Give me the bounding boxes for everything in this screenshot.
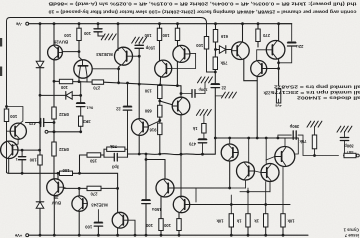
- wire br lower links: [229, 161, 231, 188]
- resistor 0R22 top: [52, 107, 56, 119]
- wire MJE253 emitter/collector drops: [78, 76, 80, 82]
- node 619/diode: [214, 48, 217, 51]
- wire diode to column: [72, 94, 81, 96]
- svg-text:100p: 100p: [198, 87, 208, 92]
- resistor 100 LTP load2: [175, 28, 179, 40]
- wire MJE253 base: [78, 52, 80, 57]
- capacitor 470u input: [198, 139, 206, 141]
- svg-text:BUV28: BUV28: [53, 39, 68, 44]
- wire inB base row: [17, 149, 40, 151]
- transistor Q driver: [266, 41, 285, 60]
- svg-text:100: 100: [29, 158, 37, 163]
- capacitor 100p: [191, 90, 193, 98]
- svg-text:3R3: 3R3: [82, 119, 90, 124]
- wire Qit emitter drop: [118, 69, 120, 83]
- node rail junction d-col: [39, 22, 42, 25]
- svg-text:-Ve: -Ve: [15, 21, 22, 26]
- capacitor 100 rail decouple: [97, 24, 99, 29]
- svg-text:100: 100: [83, 31, 91, 36]
- svg-text:100: 100: [162, 33, 170, 38]
- svg-text:all diodes = 1N4002: all diodes = 1N4002: [296, 96, 360, 101]
- wire output bus: [45, 130, 48, 133]
- transistor Q2 bottom driver: [112, 212, 128, 228]
- node d-col bottom: [39, 234, 42, 237]
- wire Qit emitter down: [119, 65, 121, 69]
- node d-col 470 crossing: [39, 121, 42, 124]
- resistor 75k mid: [213, 57, 217, 70]
- resistor 270 right: [256, 29, 260, 42]
- capacitor 1u input: [21, 150, 23, 156]
- svg-text:22u: 22u: [296, 44, 304, 49]
- inductor 4u7 output: [344, 153, 356, 157]
- resistor 1k b3: [264, 214, 268, 227]
- svg-text:MJE253: MJE253: [96, 52, 113, 57]
- transistor Q br4: [261, 164, 279, 182]
- resistor 75k fb: [107, 147, 125, 151]
- wire Qit base stub: [133, 55, 140, 57]
- transistor Q vas: [132, 119, 149, 136]
- resistor 100 LTP load1: [157, 28, 161, 40]
- wire T2 emitter down: [159, 77, 161, 85]
- resistor 680: [158, 105, 162, 117]
- wire inB emitter drop: [8, 158, 10, 172]
- resistor 100 (top mid column): [204, 37, 208, 50]
- wire fb to chain/right: [139, 154, 215, 155]
- wire supply loop left/top: [7, 18, 207, 172]
- wire -Ve supply rail: [29, 23, 292, 25]
- svg-text:1k: 1k: [254, 218, 259, 223]
- svg-text:270: 270: [90, 192, 98, 197]
- svg-text:1k: 1k: [192, 126, 197, 131]
- wire cascode emitter col: [256, 76, 258, 138]
- transistor Q T2: [155, 60, 172, 77]
- transistor Q ltpB A: [156, 179, 174, 197]
- wire driver emitter rail: [54, 80, 59, 82]
- svg-text:3p3: 3p3: [111, 164, 119, 169]
- capacitor 150u: [142, 199, 150, 201]
- svg-text:issue 7: issue 7: [344, 233, 359, 238]
- wire VAS base: [148, 121, 160, 126]
- wire BUV28 collector: [53, 24, 55, 46]
- svg-text:100: 100: [60, 85, 68, 90]
- svg-text:100: 100: [145, 223, 153, 228]
- node +ve test: [278, 99, 280, 103]
- wire lower-left loop segment: [7, 171, 60, 173]
- wire br cols down: [230, 195, 232, 214]
- transistor Q input follower: [172, 97, 190, 115]
- wire pre-driver collector: [242, 24, 244, 42]
- svg-text:75k: 75k: [109, 144, 117, 149]
- node chain/Qin base tap: [158, 100, 161, 103]
- wire pre-driver emitter: [244, 59, 257, 80]
- transistor Q br2: [275, 147, 295, 167]
- svg-text:22: 22: [221, 85, 226, 90]
- svg-text:100: 100: [196, 43, 204, 48]
- wire chain bottom: [159, 135, 161, 154]
- wire MJE253 to Qit emitter: [92, 68, 118, 70]
- resistor 130: [158, 86, 162, 99]
- diode D1: [36, 61, 44, 67]
- wire fb node B: [125, 148, 128, 150]
- wire inA base: [7, 130, 10, 132]
- svg-text:22k: 22k: [263, 90, 271, 95]
- svg-text:470: 470: [188, 141, 196, 146]
- resistor 75k output leg: [312, 135, 316, 149]
- transistor Q input top: [115, 47, 133, 65]
- wire input column x118: [117, 24, 119, 51]
- transistor Q br3: [237, 162, 255, 180]
- node chain/VAS base tap: [158, 119, 161, 122]
- svg-text:thd (full power): 1kHz 8R = 0.: thd (full power): 1kHz 8R = 0.003%, 4R =…: [48, 0, 357, 6]
- wire 0R22b: [53, 132, 55, 142]
- svg-text:100: 100: [10, 114, 18, 119]
- wire lower mid bus: [215, 137, 298, 139]
- svg-text:0u1: 0u1: [86, 105, 94, 110]
- svg-text:150p: 150p: [145, 45, 155, 50]
- node mid col fbwire: [214, 137, 217, 140]
- resistor 100 bottom load2: [177, 219, 181, 231]
- wire fb node A: [101, 154, 104, 156]
- wire BUV28 emitter: [53, 60, 55, 107]
- resistor 1k input: [202, 124, 206, 134]
- svg-text:+Ve: +Ve: [14, 233, 22, 238]
- wire input branch top: [7, 107, 23, 124]
- svg-text:22: 22: [115, 107, 120, 112]
- svg-text:MJE243: MJE243: [91, 203, 108, 208]
- svg-text:0R22: 0R22: [58, 147, 69, 152]
- svg-text:916: 916: [149, 127, 157, 132]
- resistor 100 input bias: [38, 155, 42, 165]
- diode D2: [36, 202, 44, 208]
- svg-text:all unmkd npn trs = 2SC1775: all unmkd npn trs = 2SC1775: [270, 90, 360, 95]
- wire BUV28 base: [63, 51, 80, 53]
- transistor BUV38: [47, 179, 64, 196]
- capacitor 150p: [135, 44, 143, 46]
- wire diode column: [39, 24, 41, 62]
- wire MJE243 emitter: [78, 188, 80, 196]
- wire Qin base: [160, 101, 173, 105]
- wire ltpB A collector: [164, 160, 166, 180]
- resistor 100 bottom load1: [159, 219, 163, 231]
- svg-text:619: 619: [220, 34, 228, 39]
- resistor 10k b4: [281, 214, 285, 227]
- resistor 100 (driver wire): [59, 79, 72, 83]
- transistor Q inB: [1, 141, 18, 158]
- resistor 916: [158, 123, 162, 135]
- diode D4 bias: [66, 92, 72, 100]
- wire BUV38 base: [57, 173, 59, 179]
- capacitor 22u bypass loop: [279, 24, 292, 41]
- svg-text:470: 470: [28, 121, 36, 126]
- capacitor 3p3 fb: [113, 153, 115, 161]
- svg-text:100: 100: [62, 168, 70, 173]
- svg-text:75k: 75k: [299, 139, 307, 144]
- svg-text:0R22: 0R22: [58, 112, 69, 117]
- ground 150p: [132, 37, 136, 43]
- svg-text:Cyrus 1: Cyrus 1: [343, 227, 359, 232]
- wire 0R22a to bus: [53, 119, 55, 132]
- capacitor 390p shunt: [340, 137, 348, 139]
- wire elbow to 75k node: [207, 71, 216, 73]
- wire VAS emitter: [138, 135, 140, 154]
- transistor BUV28: [48, 45, 63, 60]
- resistor 22k: [276, 89, 280, 103]
- svg-text:270: 270: [262, 33, 270, 38]
- ground stub mid: [215, 95, 223, 97]
- svg-text:100: 100: [163, 223, 171, 228]
- resistor 619: [213, 30, 217, 43]
- ground 390p leg: [337, 126, 341, 132]
- capacitor 100u bottom: [94, 222, 102, 224]
- wire MJE243 collector down: [78, 211, 80, 235]
- wire driver col: [278, 24, 280, 41]
- resistor 100 driver collector: [77, 28, 81, 40]
- wire T1 emitter down: [176, 62, 178, 85]
- wire ltpB base wire: [190, 204, 290, 206]
- ground 100p: [198, 77, 202, 83]
- svg-text:390p: 390p: [344, 143, 354, 148]
- transistor Q cascode: [251, 61, 267, 77]
- wire driver base link: [257, 50, 267, 61]
- resistor 3R3: [79, 116, 83, 126]
- resistor 0R22 bottom: [52, 142, 56, 156]
- svg-text:100: 100: [144, 33, 152, 38]
- svg-text:BUV: BUV: [52, 201, 61, 206]
- wire ltpB loop: [174, 188, 196, 202]
- svg-text:150: 150: [89, 158, 97, 163]
- transistor MJE253: [74, 60, 92, 78]
- transistor Q inA: [10, 123, 26, 139]
- svg-text:130: 130: [144, 88, 152, 93]
- svg-text:680: 680: [144, 109, 152, 114]
- capacitor 470 input: [40, 119, 42, 127]
- svg-text:4u7: 4u7: [346, 150, 354, 155]
- note margin mark: [0, 38, 2, 47]
- diode D3: [216, 49, 220, 51]
- resistor 1k b2: [246, 214, 250, 227]
- transistor Q ltpB B: [173, 196, 189, 212]
- wire fb left drop: [79, 155, 81, 173]
- wire bias diode row: [40, 94, 66, 96]
- svg-text:75k: 75k: [220, 60, 228, 65]
- svg-text:150u: 150u: [152, 207, 162, 212]
- svg-text:100: 100: [64, 33, 72, 38]
- svg-text:+ve: +ve: [274, 103, 282, 108]
- resistor 150 fb: [87, 153, 101, 157]
- transistor MJE243: [72, 196, 87, 211]
- wire Q2 base: [128, 220, 135, 235]
- svg-text:all unmkd pnp trs = 2SA872: all unmkd pnp trs = 2SA872: [273, 84, 360, 89]
- svg-text:10k: 10k: [216, 218, 224, 223]
- wire T1 loop to T2 base: [172, 53, 196, 68]
- wire R100a: [78, 24, 80, 29]
- capacitor 390p series: [278, 135, 291, 138]
- wire cascode base: [267, 68, 279, 70]
- svg-text:390p: 390p: [289, 124, 299, 129]
- ground above 1k: [196, 110, 200, 116]
- wire inA emitter down: [13, 139, 18, 145]
- wire Q2 emitter: [117, 228, 119, 235]
- capacitor 22u fb block: [127, 83, 129, 106]
- transistor Q br1: [221, 144, 238, 161]
- node output right terminal: [356, 154, 359, 157]
- transistor Q T1: [173, 45, 190, 62]
- resistor 100 (loop horizontal): [60, 171, 73, 175]
- resistor 270 top driver: [92, 80, 104, 84]
- svg-text:270: 270: [93, 85, 101, 90]
- node bias tap: [39, 94, 42, 97]
- resistor 100 (left loop): [4, 109, 8, 122]
- wire Qin emitter column: [180, 115, 182, 197]
- svg-text:contin avg power per channel =: contin avg power per channel = 25W8R, 40…: [48, 8, 356, 14]
- capacitor 0u1 bias: [77, 102, 85, 104]
- resistor 270 bottom driver: [87, 186, 101, 190]
- wire BUV38 collector: [53, 195, 55, 235]
- resistor 10k b1: [229, 214, 233, 227]
- capacitor 22u mid: [211, 83, 219, 85]
- transistor Q pre-driver: [232, 42, 250, 60]
- svg-text:100: 100: [85, 225, 93, 230]
- ground 75k leg: [307, 121, 311, 127]
- wire br bases: [255, 171, 262, 173]
- ground rail decouple: [101, 34, 105, 40]
- wire W1 right: [160, 84, 181, 87]
- wire +Ve supply rail: [29, 234, 308, 236]
- svg-text:10k: 10k: [287, 219, 295, 224]
- svg-text:1k: 1k: [236, 218, 241, 223]
